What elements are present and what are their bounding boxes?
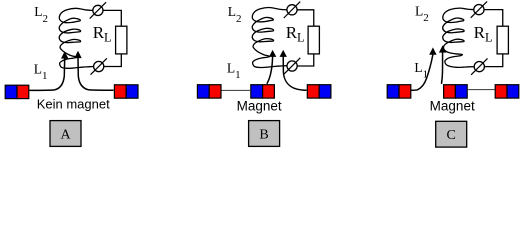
meter panel A bottom (galvanometer) — [91, 58, 107, 74]
arrow panel C left (up) with lead wire to left magnet — [410, 47, 437, 90]
arrow panel A left (up) with lead wire to left magnet — [29, 51, 68, 90]
arrow panel B right (up) with lead wire to right magnet — [280, 50, 307, 90]
meter panel B top (galvanometer) — [284, 2, 300, 18]
svg-text:Magnet: Magnet — [430, 99, 475, 114]
wire panel B: R_L to bottom meter — [297, 54, 314, 66]
meter panel B bottom (galvanometer) — [284, 58, 300, 74]
wire panel A: top meter to R_L — [103, 10, 121, 26]
wire panel B: top meter to R_L — [297, 10, 314, 26]
answer box C — [436, 121, 467, 147]
magnet B right (red-blue) — [307, 85, 331, 98]
wire panel A: R_L to bottom meter — [104, 54, 122, 67]
magnet C middle (red-blue, in coil) — [444, 85, 468, 98]
answer box A — [50, 121, 81, 147]
wire panel B: left magnet to middle magnet (rod) — [221, 89, 250, 91]
svg-text:C: C — [447, 128, 456, 143]
meter panel C bottom (galvanometer) — [471, 58, 487, 74]
magnet A right (red-blue) — [114, 85, 138, 98]
coil L2 panel B (with bottom loop, wires to meters) — [252, 7, 287, 67]
meter panel C top (galvanometer) — [471, 1, 487, 17]
magnet B left (blue-red) — [197, 85, 221, 98]
magnet C left (blue-red) — [387, 85, 411, 98]
svg-text:Magnet: Magnet — [237, 99, 282, 114]
magnet B middle (blue-red, in coil) — [251, 85, 275, 98]
meter panel A top (galvanometer) — [90, 2, 106, 18]
resistor R_L panel C — [497, 26, 508, 54]
magnet C right (red-blue) — [495, 85, 519, 98]
arrow panel C right (up) from middle magnet — [439, 45, 446, 84]
resistor R_L panel B — [308, 26, 319, 54]
answer box B — [249, 121, 280, 147]
coil L2 panel A (with bottom loop, wires to meters) — [59, 8, 94, 68]
resistor R_L panel A — [116, 26, 127, 54]
wire panel C: R_L to bottom meter — [484, 54, 502, 67]
magnet A left (blue-red) — [5, 85, 29, 98]
wire panel C: top meter to R_L — [484, 10, 503, 27]
svg-text:A: A — [60, 127, 71, 142]
wire panel C: middle magnet to right magnet (rod) — [468, 89, 494, 91]
svg-text:B: B — [259, 127, 268, 142]
arrow panel B left (up) from middle magnet — [267, 50, 277, 84]
coil L2 panel C (with bottom loop, wires to meters) — [443, 8, 475, 67]
arrow panel A right (up) with lead wire to right magnet — [74, 51, 113, 91]
svg-text:Kein magnet: Kein magnet — [37, 97, 110, 112]
